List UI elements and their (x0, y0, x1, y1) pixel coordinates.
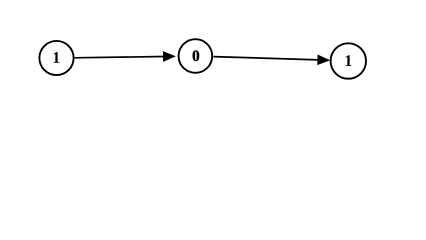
label "1" (right node) (346, 55, 352, 66)
arrowhead edge 1->0 (163, 52, 175, 62)
label "0" (middle node) (192, 50, 199, 61)
label "1" (left node) (54, 52, 60, 63)
node 0 (middle state circle) (179, 39, 213, 73)
wire edge 1->0 (75, 57, 164, 58)
node 1 (left state circle) (39, 41, 73, 75)
node 1 (right state circle) (331, 43, 366, 78)
wire edge 0->1 (213, 57, 318, 60)
arrowhead edge 0->1 (318, 55, 330, 65)
